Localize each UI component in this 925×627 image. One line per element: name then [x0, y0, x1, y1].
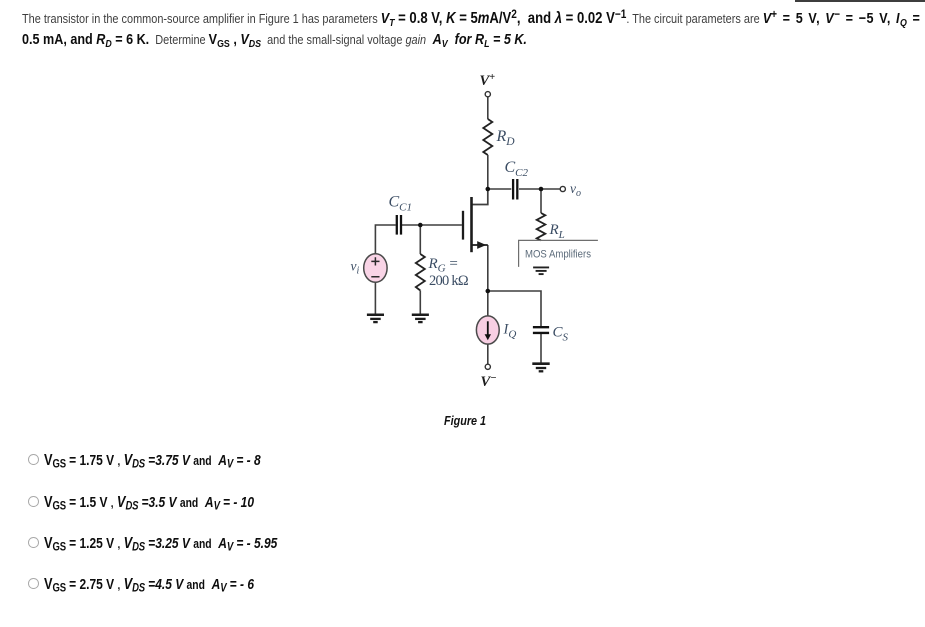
- option 1: [29, 452, 306, 471]
- transistor source arrow: [477, 241, 486, 249]
- figure caption: [444, 413, 486, 428]
- wire drain stub: [472, 189, 488, 205]
- svg-text:RL: RL: [549, 222, 565, 241]
- node source: [486, 289, 491, 294]
- svg-text:CC1: CC1: [389, 194, 413, 214]
- option 4: [29, 576, 298, 595]
- wire RD to drain node: [487, 155, 489, 189]
- problem statement paragraph: [22, 9, 925, 50]
- MOS Amplifiers box: [519, 240, 598, 267]
- svg-text:MOS Amplifiers: MOS Amplifiers: [525, 248, 592, 260]
- terminal V-: [485, 364, 490, 369]
- node output: [539, 187, 544, 192]
- ground (under CS): [532, 364, 549, 372]
- node gate: [418, 223, 423, 228]
- svg-text:RG =: RG =: [428, 256, 458, 275]
- wire gate: [420, 224, 462, 226]
- wire source node to IQ: [487, 291, 489, 316]
- capacitor CC2: [513, 179, 517, 200]
- wire output node to vo terminal: [541, 188, 560, 190]
- resistor RD: [483, 119, 492, 155]
- resistor RG: [416, 254, 425, 291]
- terminal V+: [485, 92, 490, 97]
- capacitor CS: [533, 327, 549, 333]
- wire V+ to RD: [487, 97, 489, 119]
- svg-text:RD: RD: [496, 128, 516, 148]
- source vi: [364, 254, 387, 283]
- option 2: [29, 494, 298, 513]
- svg-text:vi: vi: [351, 259, 360, 277]
- wire gate node down to RG: [419, 225, 421, 254]
- ground (under RG): [412, 315, 429, 322]
- terminal vo: [560, 186, 565, 191]
- wire CC1 left to vi: [375, 225, 395, 254]
- svg-text:V−: V−: [481, 373, 497, 390]
- svg-text:CS: CS: [553, 325, 569, 344]
- wire source node to CS: [488, 291, 541, 326]
- svg-text:CC2: CC2: [505, 159, 529, 179]
- node drain: [486, 187, 491, 192]
- wire RG to ground: [419, 291, 421, 314]
- wire vi to ground: [374, 282, 376, 313]
- option 3: [29, 535, 326, 554]
- ground (under vi): [367, 315, 384, 322]
- svg-text:vo: vo: [570, 181, 581, 199]
- resistor RL: [537, 213, 546, 240]
- wire CC2 to output node: [519, 188, 541, 190]
- transistor M1: [463, 197, 488, 252]
- svg-text:V+: V+: [480, 72, 496, 89]
- capacitor CC1: [397, 215, 401, 235]
- wire CS to ground: [540, 334, 542, 363]
- svg-text:IQ: IQ: [503, 322, 517, 341]
- ground (MOS Amplifiers box): [533, 267, 549, 274]
- top border line: [795, 0, 925, 2]
- current source IQ: [476, 316, 499, 344]
- wire source down: [487, 245, 489, 291]
- wire CC1 right to gate node: [402, 224, 420, 226]
- svg-text:200 kΩ: 200 kΩ: [429, 273, 469, 289]
- wire drain node to CC2: [488, 188, 512, 190]
- wire output node down to RL: [540, 189, 542, 213]
- wire IQ to V- terminal: [487, 344, 489, 364]
